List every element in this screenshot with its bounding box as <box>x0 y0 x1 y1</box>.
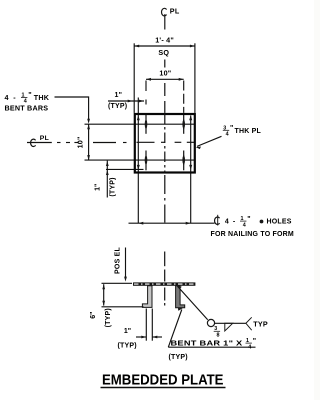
svg-text:4: 4 <box>243 222 246 228</box>
svg-text:TYP: TYP <box>253 319 268 328</box>
svg-text:": " <box>230 125 233 132</box>
svg-text:PL: PL <box>170 6 180 15</box>
svg-text:HOLES: HOLES <box>267 219 292 226</box>
dimension 1" (TYP) under bars <box>136 309 162 341</box>
wire vertical centerline inside plate <box>164 114 166 173</box>
wire top extension line at plate level <box>102 282 133 284</box>
svg-text:8: 8 <box>217 333 220 339</box>
wire vertical centerline below plate <box>164 175 166 223</box>
svg-text:4: 4 <box>248 344 251 350</box>
svg-text:THK PL: THK PL <box>235 128 262 135</box>
hole arrow up-right <box>189 115 192 120</box>
bent bar right (section) <box>176 286 185 308</box>
svg-text:": " <box>28 90 31 99</box>
bent bar B3 (plan, bottom-left) <box>145 151 147 171</box>
svg-text:EMBEDDED PLATE: EMBEDDED PLATE <box>102 372 224 388</box>
node hole centerline right (vertical) <box>190 115 192 223</box>
svg-text:PL: PL <box>40 135 49 142</box>
centerline symbol CL PL (top) <box>162 8 167 29</box>
leader from BENT BARS note to top bar line <box>55 97 89 120</box>
wire horizontal centerline of plate <box>27 141 195 143</box>
svg-text:BENT BAR 1" X: BENT BAR 1" X <box>171 341 243 348</box>
wire hole line bottom-left (horizontal) <box>106 168 144 170</box>
svg-text:(TYP): (TYP) <box>109 177 116 196</box>
svg-text:1": 1" <box>124 328 131 335</box>
svg-text:": " <box>253 338 256 345</box>
wire centerline between 10" dim and plate <box>164 83 166 113</box>
svg-text:4: 4 <box>225 219 229 226</box>
svg-text:(TYP): (TYP) <box>108 103 127 110</box>
weld leader from plate/bar joint <box>178 286 208 319</box>
svg-text:(TYP): (TYP) <box>169 354 188 361</box>
wire top bar line (horizontal) <box>85 123 195 125</box>
weld reference line <box>215 322 246 324</box>
svg-text:": " <box>247 216 250 223</box>
svg-text:(TYP): (TYP) <box>118 342 137 349</box>
bent bar B2 (plan, top-right) <box>183 114 185 134</box>
bent bar B4 (plan, bottom-right) <box>183 151 185 171</box>
weld all-around circle <box>207 319 214 326</box>
svg-text:(TYP): (TYP) <box>105 308 112 327</box>
dimension 1" (TYP) bottom-left rotated <box>106 161 108 198</box>
svg-text:10": 10" <box>159 69 171 78</box>
svg-text:1'- 4": 1'- 4" <box>155 36 174 45</box>
svg-text:1": 1" <box>115 92 123 99</box>
fillet weld triangle <box>225 323 233 331</box>
svg-text:4: 4 <box>226 132 229 138</box>
svg-text:THK: THK <box>34 93 50 102</box>
centerline symbol CL PL (left) <box>31 139 36 146</box>
hole arrow down-right <box>189 165 192 170</box>
wire bottom bar line (horizontal) <box>85 159 195 161</box>
dimension 6" (TYP) <box>103 284 105 305</box>
leader to BENT BAR note <box>168 310 182 348</box>
label 3/4" THK PL with leader <box>223 125 228 137</box>
plate (section) <box>133 282 195 285</box>
wire section centerline <box>164 252 166 306</box>
plate outline (plan square) <box>135 114 195 173</box>
hole arrow down-left <box>137 165 140 170</box>
bent bar B1 (plan, top-left) <box>145 114 147 134</box>
svg-text:1": 1" <box>94 184 101 191</box>
hole arrow up-left <box>137 115 140 120</box>
svg-text:10": 10" <box>75 136 84 148</box>
node centerline dash under SQ <box>164 60 166 68</box>
svg-text:6": 6" <box>90 312 97 319</box>
svg-text:SQ: SQ <box>158 48 169 57</box>
centerline symbol CL (holes note) <box>215 217 220 224</box>
dimension 1'-4" SQ <box>134 43 195 113</box>
svg-text:BENT BARS: BENT BARS <box>5 103 49 112</box>
svg-text:4: 4 <box>5 93 9 102</box>
node hole centerline left (vertical) <box>137 98 139 224</box>
weld size 3/8 <box>214 326 219 338</box>
svg-text:FOR NAILING TO FORM: FOR NAILING TO FORM <box>211 231 294 238</box>
svg-text:POS EL: POS EL <box>115 247 122 274</box>
bent bar left (section) <box>142 286 152 308</box>
dimension line to holes note <box>129 222 215 224</box>
weld tail <box>246 317 252 330</box>
